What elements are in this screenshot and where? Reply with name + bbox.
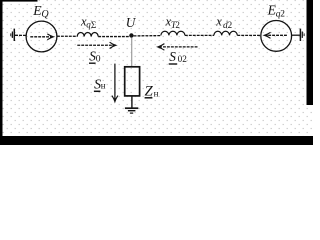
wire x_T2 to x_d2 [185,34,214,36]
svg-text:Σ: Σ [91,20,96,30]
load branch wire node U down [131,38,133,68]
source E_Q circle [26,21,57,52]
wire source E_Q to reactance x_qS [57,35,77,37]
svg-text:U: U [126,15,137,30]
wire x_d2 to source E_q2 [237,34,261,36]
power flow arrow S_0 [77,42,116,48]
ground load [125,108,138,113]
svg-text:2: 2 [228,20,233,30]
svg-text:x: x [215,15,222,29]
svg-text:0: 0 [96,53,101,64]
ground left system terminal [11,29,15,41]
reactance coil x_T2 [161,31,185,35]
node U dot [129,33,133,37]
svg-text:2: 2 [175,20,180,30]
source E_q2 circle [261,21,292,52]
ground right system terminal [300,29,304,41]
wire box to ground [131,96,133,108]
wire source E_q2 to right terminal [292,34,301,36]
source E_Q internal EMF arrow [30,34,53,40]
reactance coil x_qSigma [77,33,98,37]
load flow arrow S_n [112,64,118,102]
wire left terminal to source E_Q [15,34,26,36]
wire coil x_q to node U [98,36,129,38]
svg-text:2: 2 [280,10,285,20]
svg-text:Q: Q [41,9,49,20]
svg-text:н: н [101,81,106,91]
power flow arrow S_02 [158,44,198,51]
wire node U to reactance x_T2 [134,35,161,37]
reactance coil x_d2 [214,31,237,35]
source E_q2 internal EMF arrow [264,32,287,38]
svg-text:02: 02 [178,54,188,64]
svg-text:н: н [154,89,159,99]
load impedance Z_n box [125,67,140,96]
svg-text:S: S [169,49,176,64]
svg-text:Z: Z [145,83,154,99]
